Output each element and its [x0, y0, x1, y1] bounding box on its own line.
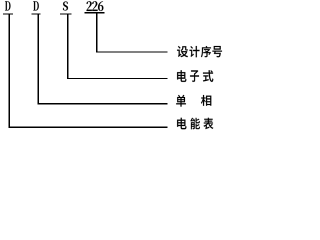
wire horizontal to label 设计序号: [96, 52, 167, 53]
label 单相 (single phase): [176, 95, 211, 107]
wire vertical from D2: [37, 15, 39, 105]
underline under 226: [85, 12, 105, 14]
wire horizontal to label 单相: [37, 103, 167, 104]
tick under S: [60, 13, 72, 14]
wire horizontal to label 电能表: [9, 127, 168, 128]
wire horizontal to label 电子式: [67, 78, 167, 79]
letter D1 (first D of DDS226): [5, 1, 10, 10]
label 电子式 (electronic type): [177, 70, 213, 82]
digits 226 (design number): [86, 1, 103, 11]
label 电能表 (energy meter): [177, 118, 213, 129]
tick under D1: [3, 13, 13, 14]
model designation diagram DDS226: [0, 0, 224, 130]
letter S of DDS226: [63, 1, 68, 10]
wire vertical from 226: [96, 14, 98, 53]
label 设计序号 (design serial number): [177, 46, 222, 57]
wire vertical from D1: [9, 15, 11, 128]
tick under D2: [31, 13, 40, 14]
wire vertical from S: [67, 15, 69, 79]
letter D2 (second D of DDS226): [33, 1, 39, 10]
